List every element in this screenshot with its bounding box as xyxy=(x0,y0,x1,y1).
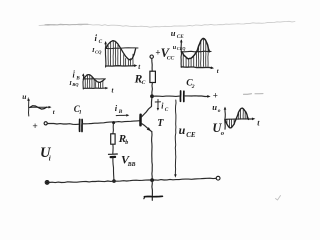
node emitter rail junction xyxy=(150,178,154,182)
ground stem xyxy=(151,180,154,200)
terminal input xyxy=(44,122,47,125)
wire C2 to output terminal xyxy=(185,95,208,98)
svg-text:CE: CE xyxy=(186,131,196,139)
plot iC: quiescent level line ICQ xyxy=(106,47,138,50)
capacitor C1 xyxy=(79,119,81,131)
svg-text:C: C xyxy=(99,39,103,45)
terminal input bottom xyxy=(46,181,49,184)
svg-text:t: t xyxy=(53,109,55,116)
svg-text:b: b xyxy=(125,140,128,146)
terminal +VCC xyxy=(150,55,153,58)
plot uCE: quiescent level line UCEQ xyxy=(181,50,211,53)
svg-text:u: u xyxy=(22,92,26,101)
svg-text:CC: CC xyxy=(167,55,175,61)
svg-text:2: 2 xyxy=(191,84,195,90)
svg-text:i: i xyxy=(49,154,51,162)
ruled line (faint) xyxy=(39,21,295,27)
wire VCC to RC xyxy=(151,59,153,72)
current arrow iB xyxy=(116,114,127,116)
bottom rail wire xyxy=(49,178,216,182)
svg-text:CQ: CQ xyxy=(95,49,102,54)
svg-text:B: B xyxy=(75,76,80,82)
wire input to C1 xyxy=(47,123,79,126)
svg-text:o: o xyxy=(218,108,221,114)
plot iB: hatch xyxy=(84,77,86,88)
node VBB rail junction xyxy=(112,179,116,183)
plot iB: time axis xyxy=(83,87,106,89)
plot uCE: time axis xyxy=(181,67,212,68)
wire C1 to base xyxy=(83,121,140,124)
plot uo: vertical axis xyxy=(224,108,227,129)
resistor Rb xyxy=(111,134,115,144)
plot iC: vertical axis xyxy=(104,43,107,68)
voltage arrow uCE xyxy=(174,100,177,175)
transistor T collector lead xyxy=(141,98,152,118)
plot ui: small sine xyxy=(30,106,47,109)
svg-text:T: T xyxy=(157,118,164,129)
plot uo: waveform curve xyxy=(225,108,249,128)
stray dashes xyxy=(244,93,252,96)
plot iB: waveform curve xyxy=(83,75,104,83)
resistor RC xyxy=(150,71,156,82)
transistor T base bar xyxy=(139,115,142,126)
wire collector node to C2 xyxy=(153,95,180,97)
svg-text:u: u xyxy=(212,102,217,112)
current arrow iC xyxy=(155,101,160,103)
plot uCE: vertical axis xyxy=(180,41,183,68)
plot iC: hatch xyxy=(107,46,109,66)
wire VBB to ground rail xyxy=(113,158,114,181)
svg-text:C: C xyxy=(142,80,146,86)
svg-text:+: + xyxy=(213,90,218,100)
battery VBB short plate xyxy=(111,156,116,158)
plot uo: hatch xyxy=(226,119,228,123)
svg-text:BQ: BQ xyxy=(71,82,79,87)
transistor T emitter lead xyxy=(141,123,152,131)
svg-text:B: B xyxy=(118,109,123,115)
svg-text:C: C xyxy=(165,107,169,113)
plot uCE: waveform curve xyxy=(182,38,210,58)
svg-text:u: u xyxy=(179,123,186,137)
plot uo: time axis xyxy=(225,118,253,121)
plot iC: waveform curve xyxy=(106,41,136,60)
plot uCE: hatch xyxy=(182,55,184,66)
svg-text:BB: BB xyxy=(127,162,136,168)
svg-text:1: 1 xyxy=(79,110,82,116)
node collector junction xyxy=(150,94,154,98)
svg-text:+: + xyxy=(32,122,37,132)
capacitor C2 xyxy=(179,91,181,101)
svg-text:CEQ: CEQ xyxy=(177,46,186,51)
svg-text:u: u xyxy=(171,28,176,38)
wire emitter down xyxy=(151,132,154,180)
svg-text:CE: CE xyxy=(177,34,184,40)
plot ui: axes xyxy=(28,100,30,117)
stray mark bottom right xyxy=(276,196,281,201)
battery VBB long plate xyxy=(109,153,118,155)
node base junction xyxy=(112,121,115,124)
wire base node to Rb xyxy=(112,124,115,134)
wire RC to collector node xyxy=(151,83,154,96)
ground bar xyxy=(144,195,162,197)
plot iC: time axis xyxy=(106,65,136,68)
plot iB: vertical axis xyxy=(82,75,85,90)
wire Rb to VBB xyxy=(112,144,114,153)
plot iB: quiescent level line IBQ xyxy=(83,78,105,80)
terminal output bottom xyxy=(216,176,220,180)
svg-text:t: t xyxy=(217,68,219,75)
